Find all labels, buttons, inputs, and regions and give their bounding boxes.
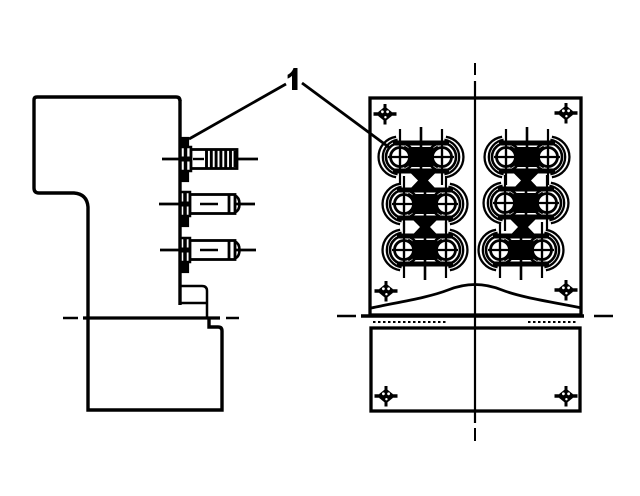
callout leader left (189, 84, 286, 139)
stud 1 threads (207, 150, 236, 168)
parting line left dash (63, 317, 78, 320)
horizontal centerline solid (361, 314, 584, 318)
boss block bottom edge (180, 302, 207, 305)
screw top-left (374, 104, 397, 125)
stud 3 base line (183, 239, 187, 261)
stud 1 centerline (162, 158, 258, 161)
edge bump 1 (180, 138, 188, 146)
stud 1 base line (184, 148, 188, 170)
stud 2 centerline (159, 203, 255, 206)
edge bump 3 (180, 217, 188, 226)
gasket dotted texture left (373, 321, 446, 323)
terminal pair row3 left column (383, 220, 468, 280)
stud 1 center dash (193, 158, 204, 160)
stud 2 center dash (200, 203, 218, 205)
boss block top edge (180, 286, 207, 318)
stud 3 base (181, 238, 191, 262)
screw bottom-right (555, 386, 578, 407)
left view right edge (178, 100, 181, 305)
stud 2 shaft (190, 195, 235, 214)
wavy gasket curve (371, 285, 582, 309)
vertical centerline solid (474, 81, 476, 423)
screw bottom-left (375, 386, 398, 407)
stud 2 base line (183, 193, 187, 215)
terminal pair row1 left column (379, 127, 464, 187)
stud 3 centerline (160, 249, 256, 252)
stud 2 tip (235, 196, 240, 213)
screw mid-right (555, 280, 578, 301)
parting line solid (83, 316, 220, 319)
callout leader right (302, 83, 390, 148)
vertical centerline top dash (474, 63, 476, 75)
stud 3 tip (235, 242, 240, 259)
screw mid-left (375, 281, 398, 302)
edge bump 2 (180, 172, 188, 181)
screw top-right (555, 103, 578, 124)
lockwire bowtie right column lower (509, 218, 537, 237)
lockwire bowtie left column lower (411, 218, 439, 237)
lower plate outline (371, 328, 580, 411)
callout number 1 (288, 68, 298, 90)
terminal pair row2 left column (383, 174, 468, 234)
left view main body outline (34, 97, 222, 410)
stud 3 shaft (190, 241, 235, 260)
terminal pair row2 right column (484, 173, 569, 233)
terminal pair row3 right column (479, 220, 564, 280)
lockwire bowtie left column upper (409, 172, 437, 191)
stud 3 center dash (200, 249, 218, 251)
edge bump 4 (180, 263, 188, 272)
stud 2 base (181, 192, 191, 216)
horizontal centerline right dash (594, 315, 613, 318)
gasket dotted texture right (528, 321, 578, 323)
vertical centerline bottom dash (474, 428, 476, 441)
stud 1 base (181, 147, 192, 171)
lockwire bowtie right column upper (512, 172, 540, 191)
horizontal centerline left dash (337, 315, 356, 318)
terminal pair row1 right column (485, 127, 570, 187)
upper plate outline (370, 98, 581, 315)
stud 1 shaft (191, 150, 237, 169)
parting line right dash (226, 317, 239, 320)
